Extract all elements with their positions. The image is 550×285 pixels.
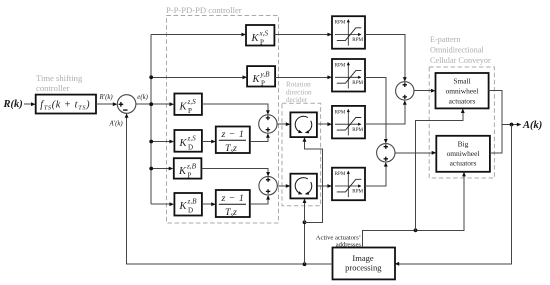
wire A node down to image processing input (395, 125, 512, 266)
block: gain KPyB (247, 66, 275, 87)
svg-text:e(k): e(k) (137, 94, 148, 101)
svg-text:R(k): R(k) (3, 99, 23, 110)
block: rotation decider 1 (290, 112, 317, 137)
svg-text:Omnidirectional: Omnidirectional (430, 46, 484, 55)
label: Rotation direction decider (286, 81, 312, 105)
svg-text:Rotation: Rotation (286, 81, 311, 89)
svg-text:RPM: RPM (335, 109, 346, 115)
wire RPM1 to sum S1 top (365, 35, 407, 82)
node dot addresses branch (414, 228, 418, 232)
wire RPM2 to sum S2 top (365, 77, 388, 143)
block: gain KPzS (174, 94, 202, 115)
dashed box: P-P-PD-PD controller (167, 16, 279, 224)
svg-text:z,B: z,B (186, 163, 197, 171)
wire Tsz1 to sum zS (250, 133, 270, 141)
svg-text:x,S: x,S (259, 30, 269, 38)
svg-text:R′(k): R′(k) (99, 94, 114, 101)
svg-text:z,S: z,S (187, 135, 197, 143)
svg-text:P: P (188, 172, 192, 180)
block: derivative Tsz 2 (216, 190, 250, 219)
svg-text:actuators: actuators (450, 159, 477, 168)
block: RPM saturation 4 (332, 168, 365, 201)
wire RPM4 to sum S2 bottom (365, 162, 388, 186)
dashed box: rotation direction decider (282, 103, 321, 206)
svg-text:RPM: RPM (352, 189, 363, 195)
svg-text:D: D (188, 206, 193, 214)
block: RPM saturation 2 (332, 59, 365, 92)
wire branch to KDzS (151, 140, 174, 144)
wire sum S1 to Small box (414, 89, 436, 93)
svg-text:K: K (179, 101, 188, 112)
svg-text:P: P (188, 107, 192, 115)
svg-text:Small: Small (453, 77, 470, 86)
svg-text:RPM: RPM (352, 127, 363, 133)
block: small omniwheel actuators (436, 73, 489, 108)
wire KPxS to RPM1 (274, 33, 332, 37)
svg-text:z − 1: z − 1 (221, 193, 245, 204)
svg-text:RPM: RPM (335, 20, 346, 26)
svg-text:z,S: z,S (187, 98, 197, 106)
wire branch to KPzB (151, 167, 173, 171)
block: RPM saturation 3 (332, 106, 365, 138)
svg-text:Image: Image (352, 253, 373, 263)
svg-text:z − 1: z − 1 (221, 129, 245, 140)
label: E-pattern Omnidirectional Cellular Conveyor (430, 35, 491, 65)
wire branch to KPxS (151, 33, 246, 37)
wire: error bus vertical (150, 35, 152, 205)
svg-text:Cellular Conveyor: Cellular Conveyor (430, 56, 491, 65)
wire image processing output to A'(k) feedback (125, 113, 333, 264)
wire KPyB to RPM2 (275, 75, 332, 79)
sum junction S2 (big wheels) (377, 144, 395, 162)
sum junction zS (259, 115, 277, 133)
node dot bus z,B (149, 167, 153, 171)
wire rot2 to RPM4 (317, 184, 332, 188)
svg-text:z,B: z,B (187, 198, 198, 206)
wire KPzB to sum zB (201, 169, 270, 177)
wire feed to rot2 bottom (303, 198, 307, 222)
svg-text:RPM: RPM (352, 80, 363, 86)
wire sum S2 to Big box (395, 151, 436, 155)
svg-text:omniwheel: omniwheel (447, 149, 480, 158)
svg-text:controller: controller (36, 83, 70, 93)
svg-text:processing: processing (345, 262, 382, 272)
block: gain KPxS (246, 25, 274, 46)
sum junction 1 (error) (117, 95, 136, 114)
block: rotation decider 2 (290, 174, 317, 199)
block: big omniwheel actuators (436, 136, 490, 172)
wire KPzS to sum zS (202, 104, 270, 115)
wire addresses from image processing top to Big bottom (363, 172, 466, 247)
svg-text:Time shifting: Time shifting (36, 73, 83, 83)
wire Small box to output join (489, 90, 502, 124)
svg-text:P: P (260, 38, 264, 46)
node dot bus z,S D (149, 140, 153, 144)
svg-text:Big: Big (458, 139, 469, 148)
wire sum zS to rot1 (277, 122, 290, 126)
svg-text:A′(k): A′(k) (109, 120, 124, 127)
dashed box: E-pattern conveyor (429, 67, 494, 178)
svg-text:K: K (179, 201, 188, 212)
block: derivative Tsz 1 (216, 127, 250, 155)
node dot rotation feed tap (303, 262, 307, 266)
svg-text:RPM: RPM (335, 171, 346, 177)
wire sum1 to bus and KPzS (136, 102, 174, 106)
node dot A(k) branch (510, 123, 514, 127)
wire addresses branch to Small bottom (416, 108, 465, 230)
label Active actuators' addresses (316, 235, 362, 249)
wire branch to KPyB (151, 75, 247, 79)
svg-text:K: K (252, 74, 261, 85)
wire branch to KDzB (151, 202, 174, 206)
svg-text:K: K (179, 138, 188, 149)
wire Big box to output join (490, 125, 502, 153)
wire rotation feed vertical (304, 222, 306, 264)
svg-text:y,B: y,B (260, 71, 271, 79)
svg-text:addresses: addresses (336, 242, 362, 249)
svg-text:RPM: RPM (352, 37, 363, 43)
wire sum zB to rot2 (277, 184, 290, 188)
svg-text:omniwheel: omniwheel (446, 87, 479, 96)
wire KDzB to Tsz2 (202, 202, 216, 206)
svg-text:P: P (261, 79, 265, 87)
svg-text:RPM: RPM (335, 62, 346, 68)
block: gain KDzS (174, 130, 202, 152)
node dot bus y,B (149, 75, 153, 79)
wire KDzS to Tsz1 (202, 140, 216, 144)
svg-text:K: K (178, 166, 187, 177)
svg-text:D: D (188, 143, 193, 151)
block: RPM saturation 1 (332, 16, 365, 49)
svg-text:P-P-PD-PD controller: P-P-PD-PD controller (166, 5, 242, 15)
svg-text:A(k): A(k) (522, 120, 542, 131)
sum junction zB (259, 177, 277, 195)
node dot rotation feed split (303, 220, 307, 224)
wire RPM3 to sum S1 bottom (365, 100, 407, 124)
svg-text:Active actuators’: Active actuators’ (316, 235, 361, 242)
node dot bus z,S (149, 102, 153, 106)
wire join to A(k) (502, 123, 521, 127)
svg-text:E-pattern: E-pattern (430, 35, 460, 44)
wire R(k) to TS box (24, 102, 36, 106)
block: image processing (333, 248, 396, 280)
block: gain KPzB (174, 158, 202, 179)
svg-text:actuators: actuators (449, 97, 476, 106)
sum junction S1 (small wheels) (396, 82, 414, 100)
wire feed loop to rot1 bottom (303, 137, 323, 222)
wire TS box to sum1 (96, 102, 117, 106)
wire Tsz2 to sum zB (250, 195, 270, 204)
block: gain KDzB (174, 193, 202, 216)
svg-text:K: K (251, 33, 260, 44)
block: time shifting fTS (36, 95, 96, 114)
wire rot1 to RPM3 (317, 122, 332, 126)
